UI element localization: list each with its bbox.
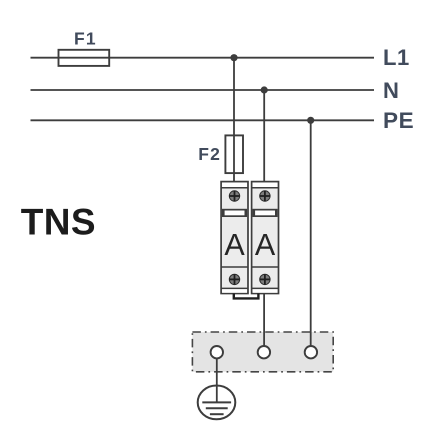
wire from module 2 to busbar <box>263 294 265 348</box>
wire PE line <box>31 119 375 121</box>
svg-text:L1: L1 <box>383 45 410 70</box>
svg-text:PE: PE <box>383 108 414 133</box>
svg-text:N: N <box>383 78 399 103</box>
svg-text:F1: F1 <box>74 29 97 49</box>
SPD module 1 (A) <box>221 182 248 294</box>
screw bottom module 2 <box>260 274 270 284</box>
svg-text:A: A <box>224 228 245 262</box>
terminal circle left <box>211 346 223 358</box>
node junction on PE <box>307 117 314 124</box>
svg-text:TNS: TNS <box>21 201 96 242</box>
terminal circle middle <box>258 346 270 358</box>
ground symbol <box>198 358 236 419</box>
fuse F1 <box>59 50 110 66</box>
node junction on L1 <box>230 54 237 61</box>
screw top module 1 <box>229 191 239 201</box>
busbar PE terminal block <box>192 332 333 372</box>
wire L1 line <box>31 57 375 59</box>
wire N line <box>31 89 375 91</box>
svg-text:F2: F2 <box>198 144 221 164</box>
wire from N to module 2 <box>263 90 265 182</box>
screw bottom module 1 <box>229 274 239 284</box>
fuse F2 <box>225 135 243 173</box>
wire from PE to busbar <box>310 120 312 347</box>
wire jumper between module bottoms <box>234 294 259 299</box>
screw top module 2 <box>260 191 270 201</box>
terminal circle right <box>305 346 317 358</box>
svg-text:A: A <box>255 228 276 262</box>
SPD module 2 (A) <box>252 182 279 294</box>
node junction on N <box>261 86 268 93</box>
wire from L1 to module 1 <box>233 58 235 182</box>
